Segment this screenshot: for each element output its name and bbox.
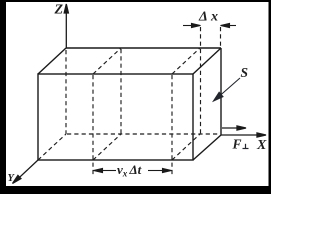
X axis xyxy=(221,133,266,137)
hidden back-bottom edge xyxy=(67,133,220,135)
cut plane 2 front vertical xyxy=(171,75,173,175)
box front face xyxy=(38,74,193,160)
S pointer arrow xyxy=(212,78,240,103)
dx right extension line xyxy=(220,27,222,47)
cut plane 1 back vertical xyxy=(120,49,122,134)
svg-text:vxΔt: vxΔt xyxy=(117,162,142,178)
dx dimension right segment xyxy=(221,23,237,27)
vxdt dimension right segment with right arrow xyxy=(148,168,172,172)
cut plane 1 front vertical xyxy=(92,75,94,175)
box back-top edge xyxy=(66,47,221,49)
cut plane 1 top-face diagonal xyxy=(93,48,121,74)
frame border top xyxy=(0,0,271,2)
box top-left depth edge xyxy=(38,48,66,74)
svg-text:X: X xyxy=(256,138,267,153)
frame border bottom xyxy=(0,186,271,194)
svg-text:Z: Z xyxy=(54,3,64,18)
vxdt dimension left segment with left arrow xyxy=(94,168,117,172)
svg-text:S: S xyxy=(241,65,249,80)
box top-right depth edge xyxy=(193,48,221,74)
frame border right xyxy=(269,0,272,194)
box bottom-right depth edge xyxy=(193,135,221,160)
force arrow F xyxy=(222,126,246,130)
cut plane 2 bottom-face diagonal xyxy=(172,134,200,160)
Z axis xyxy=(64,4,68,48)
cut plane 2 top-face diagonal xyxy=(172,48,200,74)
dx dimension left segment xyxy=(183,23,201,27)
hidden bottom-left depth edge xyxy=(38,134,66,160)
box right-back vertical edge xyxy=(220,48,222,135)
svg-text:F: F xyxy=(232,137,242,152)
frame border left xyxy=(0,0,6,194)
cut plane 1 bottom-face diagonal xyxy=(93,134,121,160)
cut plane 2 back vertical and dx extension xyxy=(200,27,202,134)
Y axis xyxy=(11,160,38,185)
hidden back-left vertical edge xyxy=(65,50,67,134)
